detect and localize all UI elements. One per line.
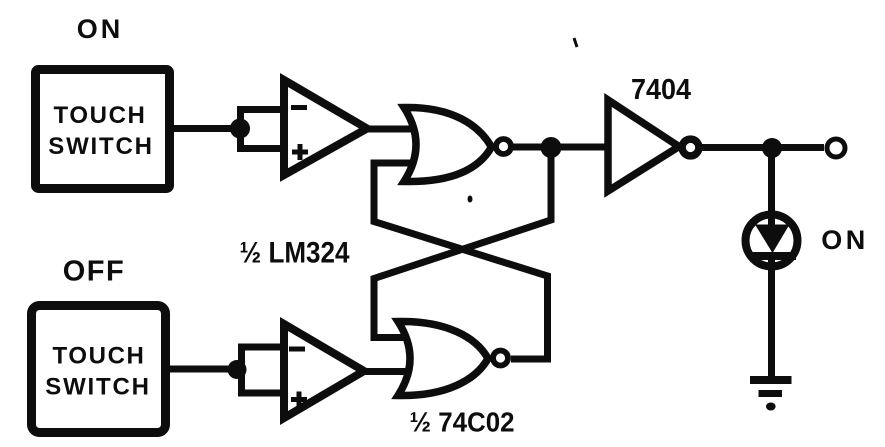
- wire: U1b output to G2 lower input: [357, 368, 414, 375]
- svg-text:½ 74C02: ½ 74C02: [410, 407, 515, 438]
- junction dot at G1 output: [541, 137, 562, 158]
- output terminal: [827, 139, 845, 157]
- NOR gate G1 (set): [404, 107, 511, 181]
- wire: G1 output to inverter U2: [513, 144, 606, 151]
- svg-text:7404: 7404: [631, 74, 691, 106]
- junction dot at LED branch: [762, 138, 782, 158]
- wire: U1a output to G1 upper input: [360, 126, 414, 133]
- LED D1: [746, 212, 798, 272]
- junction dot at U1a input: [230, 119, 250, 139]
- wire: junction down through LED to ground: [768, 148, 775, 380]
- svg-text:TOUCH: TOUCH: [54, 102, 147, 129]
- svg-text:ON: ON: [821, 225, 869, 255]
- touch switch S1 (ON): [36, 70, 170, 189]
- wire: S2 output to U1b input node: [166, 366, 237, 373]
- touch switch S2 (OFF): [32, 306, 166, 433]
- wire: U1b input bracket: [242, 344, 287, 397]
- svg-text:ON: ON: [77, 14, 124, 44]
- wire: feedback G1 output to G2 upper input (cross-coupled): [374, 147, 551, 338]
- wire: U2 output to output terminal: [702, 144, 824, 151]
- svg-text:SWITCH: SWITCH: [45, 374, 150, 401]
- wire: feedback G2 output to G1 lower input (cross-coupled): [374, 163, 548, 359]
- op-amp U1b half LM324 (OFF comparator): [284, 324, 364, 418]
- svg-text:TOUCH: TOUCH: [53, 343, 146, 370]
- svg-text:½ LM324: ½ LM324: [240, 237, 350, 270]
- svg-text:OFF: OFF: [63, 256, 126, 288]
- wire: U1a input bracket: [241, 106, 287, 152]
- inverter U2 7404: [608, 100, 699, 191]
- ground: [750, 376, 792, 411]
- junction dot at U1b input: [228, 360, 247, 379]
- op-amp U1a half LM324 (ON comparator): [284, 80, 367, 175]
- NOR gate G2 (reset): [398, 321, 508, 395]
- wire: S1 output to U1a input node: [170, 125, 240, 132]
- svg-text:SWITCH: SWITCH: [48, 133, 153, 160]
